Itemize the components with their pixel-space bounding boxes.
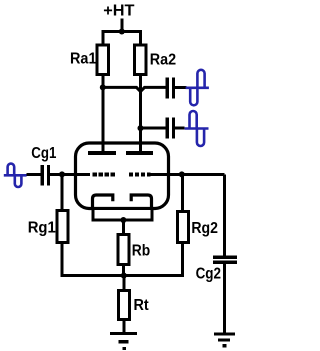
wire HT stub [120,19,123,32]
wire Rt to ground [122,320,125,333]
output signal sine 1 (blue) [186,70,209,106]
capacitor Cg2 plates [213,257,237,262]
tube U1 envelope [76,143,169,209]
wire Rg2 top lead [181,174,184,211]
ground right [214,334,235,346]
label Rt [134,297,150,314]
wire cap2 to output 2 [175,127,185,130]
junction HT dot [119,29,125,35]
svg-text:Rg2: Rg2 [191,220,218,237]
wire cathode tail to Rb [122,220,125,235]
wire Rg1 bottom to bus [62,243,183,276]
label Rg2 [191,220,218,237]
wire top bus [103,32,141,45]
capacitor Cg1 plates [42,165,48,186]
resistor Rg2 [177,212,188,243]
junction input dot [59,171,65,177]
svg-text:Ra1: Ra1 [70,50,97,67]
tube anode 2 plate [126,151,153,155]
svg-text:Rb: Rb [132,242,151,259]
wire anode1 vertical [101,76,104,151]
ground left [110,334,137,349]
junction cathode tail dot [120,217,126,223]
resistor Rb [118,235,129,265]
wire Rg1 top lead [61,174,64,210]
svg-text:Cg1: Cg1 [31,145,56,162]
wire Rt top lead [122,276,125,291]
svg-text:Rg1: Rg1 [28,220,56,237]
junction anode2 dot [138,125,144,131]
capacitor output C1 plates [167,78,173,99]
junction tail dot [121,273,127,279]
resistor Rg1 [57,211,68,243]
junction grid2 dot [179,171,185,177]
wire to Cg2 [223,174,226,255]
tube cathode 2 [131,195,151,209]
wire grid2 lead [151,173,225,176]
tube cathode 1 [93,195,113,209]
label Cg1 [31,145,56,162]
label Ra1 [70,50,97,67]
junction anode1 dot [100,84,106,90]
input signal sine (blue) [4,164,27,187]
wire Rb bottom lead [122,265,125,276]
wire input to Cg1 [27,173,41,176]
svg-text:Rt: Rt [134,297,150,314]
wire anode2 to output cap 2 [141,127,166,130]
label Rg1 [28,220,56,237]
wire cap1 to output 1 [175,86,187,89]
wire anode1 to output cap 1 with hop over Ra2 lead [103,87,166,91]
svg-text:Cg2: Cg2 [196,265,221,282]
tube grid 2 (dashed) [129,173,151,177]
label Rb [132,242,151,259]
label Cg2 [196,265,221,282]
label Ra2 [150,51,176,68]
wire Cg2 to ground [223,264,226,334]
wire Cg1 to grid 1 [50,173,90,176]
svg-text:+HT: +HT [103,3,134,20]
svg-text:Ra2: Ra2 [150,51,176,68]
resistor Ra2 [135,45,147,75]
tube cathode bus rectangle [93,209,152,221]
resistor Rt [119,291,130,320]
wire anode2 vertical [139,76,142,151]
output signal sine 2 (blue) [185,111,209,146]
capacitor output C2 plates [167,118,173,139]
tube grid 1 (dashed) [93,173,115,177]
tube anode 1 plate [88,151,116,155]
supply +HT label [103,3,134,20]
resistor Ra1 [97,45,109,75]
